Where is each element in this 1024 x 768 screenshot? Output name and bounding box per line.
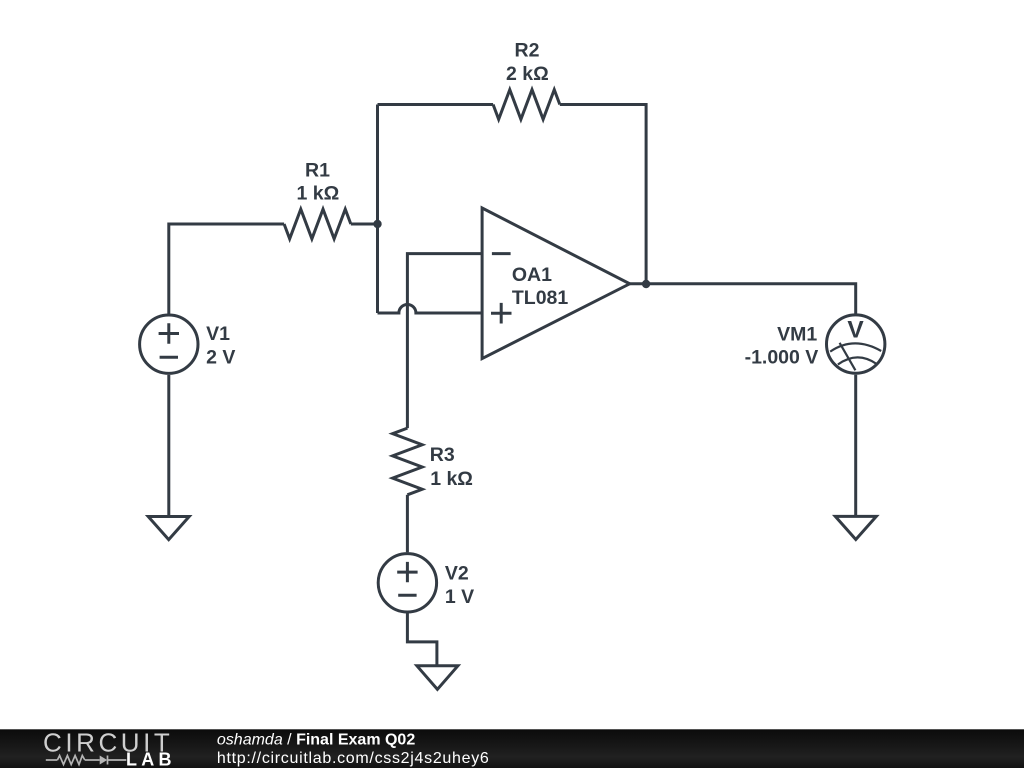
op-amp OA1 triangle	[482, 208, 630, 359]
svg-text:VM1: VM1	[777, 324, 817, 346]
svg-text:http://circuitlab.com/css2j4s2: http://circuitlab.com/css2j4s2uhey6	[217, 750, 490, 767]
resistor R3	[393, 428, 423, 495]
svg-text:1 kΩ: 1 kΩ	[430, 468, 473, 490]
svg-text:oshamda / Final Exam Q02: oshamda / Final Exam Q02	[217, 732, 415, 749]
svg-text:2 V: 2 V	[206, 346, 235, 368]
wire VM1 to ground	[854, 375, 857, 517]
svg-text:V1: V1	[206, 323, 230, 345]
resistor R1	[284, 209, 351, 239]
wire top loop left segment	[378, 103, 494, 106]
wire R3 to V2	[406, 495, 409, 552]
svg-text:R1: R1	[305, 159, 330, 181]
CircuitLab logo schematic squiggle: wire + resistor + diode	[46, 756, 127, 765]
svg-text:OA1: OA1	[512, 264, 552, 286]
ground below V2	[417, 666, 458, 690]
wire V2 to ground (jog)	[407, 612, 437, 666]
ground below V1	[148, 517, 189, 540]
bottom black bar	[0, 728, 1024, 768]
wire top loop right segment down to output node	[560, 105, 646, 285]
voltmeter VM1	[827, 315, 885, 373]
VM1 needle	[840, 343, 856, 371]
wire V1 to ground	[167, 375, 170, 517]
wire V1 top to R1	[169, 224, 284, 314]
svg-text:V2: V2	[445, 562, 469, 584]
output node junction dot	[642, 280, 650, 288]
svg-text:R2: R2	[515, 39, 540, 61]
svg-text:2 kΩ: 2 kΩ	[506, 63, 549, 85]
svg-text:-1.000 V: -1.000 V	[745, 346, 819, 368]
node A junction dot	[373, 220, 381, 228]
wire - input, corner, down to R3	[407, 254, 482, 429]
VM1 meter arcs	[830, 343, 881, 351]
svg-text:TL081: TL081	[512, 287, 569, 309]
wire R1 to node A	[351, 223, 378, 226]
wire output to VM1	[630, 284, 856, 314]
svg-text:R3: R3	[430, 444, 455, 466]
svg-text:LAB: LAB	[126, 750, 172, 768]
resistor R2	[493, 90, 560, 120]
wire feedback left vertical (node A up to top loop, down to + input level)	[376, 105, 379, 314]
voltage source V2	[378, 554, 436, 612]
ground below VM1	[835, 516, 876, 539]
svg-text:V: V	[847, 317, 864, 344]
op-amp minus symbol	[492, 252, 511, 255]
svg-text:1 kΩ: 1 kΩ	[297, 182, 340, 204]
svg-text:1 V: 1 V	[445, 586, 474, 608]
op-amp plus symbol	[491, 303, 512, 324]
wire + input with hop over vertical wire	[378, 305, 483, 314]
voltage source V1	[140, 315, 198, 373]
